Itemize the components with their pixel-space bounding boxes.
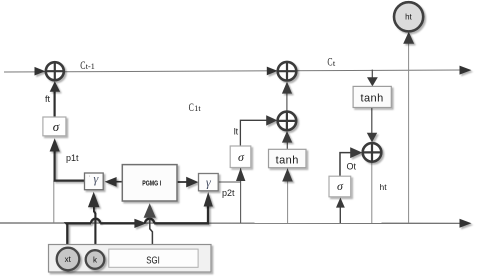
wire: tanh1 up to plus2 [286,141,288,149]
wire: sigma f up to plus1 (ft) [50,81,60,117]
svg-text:t-1: t-1 [86,62,95,71]
svg-text:lt: lt [234,126,239,136]
wire: bus up into sigma-ot [339,204,341,223]
node plus1 (xor on C line, left) [46,62,64,80]
box tanh2 [353,86,391,107]
wire: lt path sigma-lt top to plus2 left [240,120,268,146]
node plus4 (xor right) [363,143,382,162]
svg-text:t: t [333,59,336,68]
svg-text:ft: ft [45,94,51,104]
svg-text:ht: ht [380,182,388,192]
arrowhead into ht circle [403,32,414,44]
wire: vertical x=408.6 bus up to ht circle [408,33,410,223]
label p1t [66,153,79,163]
wire: vertical below sigma f column down to bus [53,181,55,223]
box sigma lt [230,146,251,168]
wire: bold bus segment to gamma2 bottom [145,192,213,223]
svg-text:xt: xt [65,255,72,264]
wire: bottom horizontal bus [0,222,461,224]
arrowhead into sigma-ot bottom [336,198,345,208]
box gamma1 (left) [85,172,104,190]
box sigma f (forget gate) [43,117,66,136]
label lt [234,126,239,136]
wire: plus2 up to plus3 [286,93,288,112]
wire: PGMGI to gamma1 (left arrow) [105,177,123,187]
svg-text:tanh: tanh [276,155,299,167]
node k input circle [86,250,105,269]
arrowhead into tanh2 top [367,77,378,86]
arrowhead into sigma-lt bottom [236,168,245,181]
box input container [49,245,212,273]
arrowhead into plus3 bottom [282,82,292,94]
arrowhead into plus2 left [266,115,277,125]
node plus2 (xor middle) [278,112,297,131]
arrowhead into plus4 top [367,133,377,143]
arrowhead into tanh1 bottom [282,168,293,181]
svg-text:p2t: p2t [222,188,235,198]
svg-text:tanh: tanh [360,93,383,105]
svg-text:Ot: Ot [347,162,357,172]
node xt input circle [57,248,80,271]
wire: k bold path up to gamma1 bottom [88,192,100,251]
wire: Ot path sigma-ot top to plus4 left [340,153,353,177]
box SGI [109,249,198,267]
wire: xt bold path up and right along bus [66,219,146,249]
wire: tanh2 down to plus4 [371,108,373,135]
wire: Ct line down to tanh2 [371,70,373,80]
label C1t [189,102,202,114]
svg-text:p1t: p1t [66,153,79,163]
wire: vertical x=371.8 plus4 down to bus [371,162,373,223]
arrowhead into plus2 bottom [282,131,292,143]
wire: gamma2 right edge to lt vertical [218,181,240,183]
wire: PGMGI to gamma2 (right arrow) [177,177,198,188]
wire: vertical x=241 from sigma lt down to bus [240,168,242,223]
label Ct [327,57,336,69]
box PGMGI U1 [122,165,177,201]
svg-text:ht: ht [405,13,412,22]
box gamma2 (right) [199,174,219,191]
label p2t [222,188,235,198]
arrowhead bottom line right end [460,219,472,228]
label ht (near plus4) [380,182,388,192]
wire: vertical x=287.6 tanh1 down to bus [287,168,289,223]
svg-text:σ: σ [53,119,60,134]
svg-text:SGI: SGI [146,256,160,267]
label ft [45,94,51,104]
box tanh1 [269,149,307,167]
svg-text:': ' [89,176,90,182]
node plus3 (xor on C line, right) [278,62,297,81]
node ht output circle [394,2,423,31]
label Ot [347,162,357,172]
label Ct-1 [80,60,95,72]
arrowhead into plus4 left [350,147,362,158]
wire: cell state line Ct-1 to Ct (top horizontal) [4,70,462,72]
arrowhead into node plus3 [267,67,278,76]
svg-text:C: C [189,102,194,114]
wire: p1t bold path gamma1 left to sigma f [50,138,85,180]
svg-text:1t: 1t [194,104,201,113]
box sigma ot [329,176,351,197]
arrowhead top line right end [460,66,472,75]
wire: SGI path up to PGMGI bottom [144,203,156,249]
arrowhead into node plus1 [35,67,46,76]
svg-text:PGMG I: PGMG I [142,179,161,188]
